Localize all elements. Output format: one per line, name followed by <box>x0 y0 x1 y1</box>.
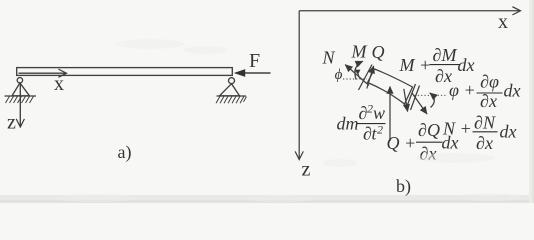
inertia force dm arrow <box>389 87 391 142</box>
svg-text:x: x <box>498 11 508 33</box>
force Q arrow <box>367 66 374 89</box>
svg-text:∂N: ∂N <box>474 113 496 133</box>
x axis arrow inside beam <box>19 72 67 74</box>
svg-text:F: F <box>249 50 260 72</box>
svg-text:dx: dx <box>504 81 521 101</box>
right ground line <box>217 95 247 97</box>
z axis (part a) <box>19 83 21 127</box>
svg-text:z: z <box>302 159 311 181</box>
svg-text:M: M <box>351 42 368 62</box>
svg-text:w: w <box>373 103 385 123</box>
phi dotted reference line <box>343 78 367 80</box>
left pin circle <box>17 78 22 83</box>
right support triangle <box>220 84 240 96</box>
left support triangle <box>12 83 30 96</box>
svg-text:x: x <box>54 73 64 95</box>
svg-text:dx: dx <box>500 122 517 142</box>
left cut mark <box>359 65 373 91</box>
phi angle arc arrow <box>355 70 360 79</box>
force N arrow <box>345 65 369 86</box>
force F line <box>245 72 271 74</box>
right pin circle <box>229 78 235 84</box>
force F arrowhead <box>234 69 245 77</box>
force N+dN arrow <box>412 93 427 114</box>
svg-text:N: N <box>321 48 335 68</box>
svg-text:b): b) <box>396 176 411 197</box>
label phi + dphi/dx dx <box>449 72 521 112</box>
svg-text:φ +: φ + <box>449 80 476 100</box>
svg-text:∂M: ∂M <box>433 45 458 65</box>
svg-text:∂φ: ∂φ <box>480 72 499 92</box>
left hatching <box>6 96 34 103</box>
svg-text:ϕ: ϕ <box>335 67 343 83</box>
force Q+dQ arrow <box>404 89 408 112</box>
x axis (part b) <box>299 10 520 12</box>
scan smudges (decorative) <box>55 39 520 203</box>
moment M+dM arc arrow <box>430 93 435 108</box>
svg-text:dm: dm <box>337 114 359 134</box>
right hatching <box>216 96 247 103</box>
beam element outline <box>368 69 413 104</box>
svg-text:∂x: ∂x <box>476 133 493 153</box>
label M + dM/dx dx <box>399 45 475 86</box>
svg-text:N +: N + <box>442 119 472 139</box>
label Q + dQ/dx dx <box>387 120 459 164</box>
z axis (part b) <box>298 11 300 160</box>
svg-text:dx: dx <box>458 55 475 75</box>
label N + dN/dx dx <box>442 113 517 154</box>
svg-text:Q: Q <box>372 42 385 62</box>
beam (part a) <box>17 68 233 76</box>
svg-text:∂Q: ∂Q <box>418 120 440 140</box>
right dotted reference line <box>415 94 448 96</box>
svg-text:a): a) <box>118 142 132 163</box>
moment M arc arrow <box>355 61 363 79</box>
svg-text:z: z <box>7 112 16 134</box>
svg-text:∂x: ∂x <box>480 91 497 111</box>
svg-text:M +: M + <box>399 55 432 75</box>
fraction d2w/dt2 <box>357 102 386 144</box>
right cut marks <box>406 84 420 110</box>
left ground line <box>5 95 37 97</box>
svg-text:Q +: Q + <box>387 133 417 153</box>
svg-text:2: 2 <box>377 123 383 137</box>
